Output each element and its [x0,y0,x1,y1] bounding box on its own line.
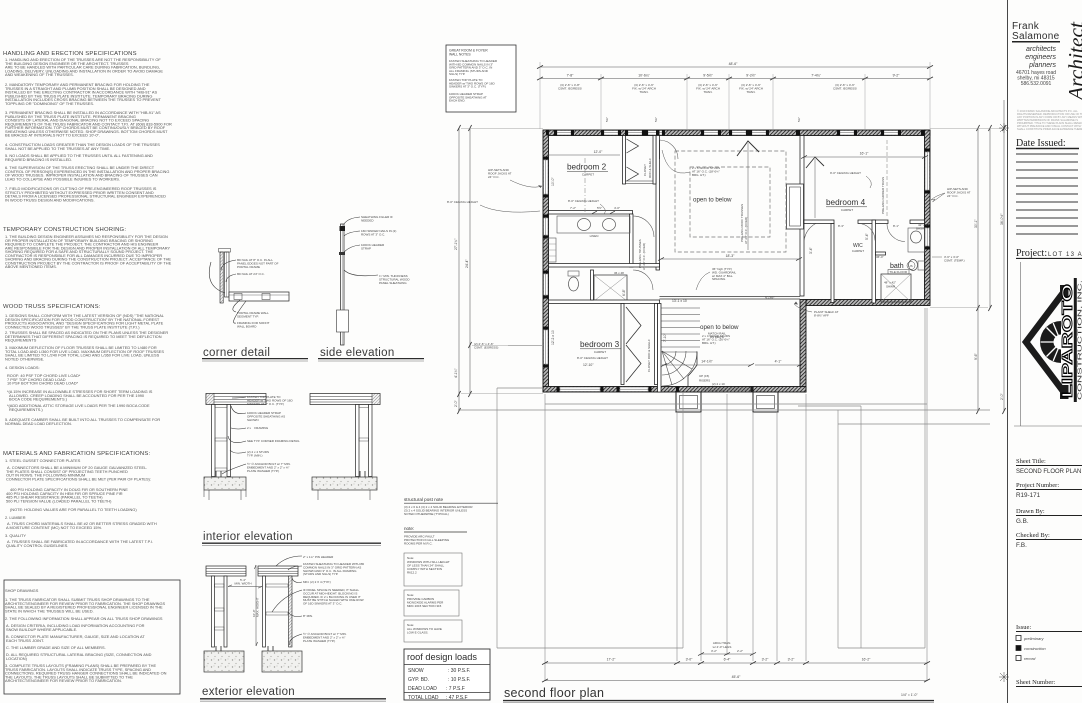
top dim extension lines [540,62,930,129]
svg-text:open to below: open to below [700,324,739,331]
svg-text:2 x FRAMING: 2 x FRAMING [247,426,269,430]
svg-text:: 47 P.S.F: : 47 P.S.F [446,695,468,701]
svg-text:F.B.: F.B. [1016,542,1027,549]
closet wall bed4 vertical [831,224,834,303]
closet bedroom 2 [623,136,626,185]
wall top [546,130,930,136]
svg-text:roof design loads: roof design loads [407,652,477,662]
shower 36x48 [594,275,627,301]
svg-text:Issue:: Issue: [1016,624,1031,631]
svg-text:AT 24" O.C. (OVER): AT 24" O.C. (OVER) [744,217,748,244]
svg-text:preliminary: preliminary [1023,636,1045,641]
windows right wall [925,152,929,246]
foyer arrow [737,141,759,156]
note box 2 [404,590,459,616]
svg-text:CARPET: CARPET [582,173,594,177]
svg-text:8'-3": 8'-3" [838,224,844,228]
svg-text:: 30 P.S.F.: : 30 P.S.F. [448,668,470,674]
small jamb dims above wall [605,117,801,122]
16'-1 dim bedroom4 [804,156,925,158]
porch columns at stair bay [676,392,778,412]
bedroom3 closet [621,304,624,385]
checkbox record [1016,656,1021,661]
svg-text:bedroom 2: bedroom 2 [567,163,607,172]
svg-text:CARPET: CARPET [852,249,864,253]
svg-text:¾" MIN. THICKNESSSTRUCTURAL WO: ¾" MIN. THICKNESSSTRUCTURAL WOODPANEL SH… [379,274,410,285]
svg-text:(3) 2'-6" x 4'-6"CSMT. /EGRESS: (3) 2'-6" x 4'-6"CSMT. /EGRESS/ [833,83,857,90]
wall step [800,300,806,393]
svg-text:30'-1": 30'-1" [974,219,978,228]
svg-text:2'-2": 2'-2" [737,649,743,653]
side elevation drawing [318,215,424,361]
svg-text:10'-0": 10'-0" [551,177,555,186]
registration mark top [999,123,1009,133]
bath tub/shower [881,274,911,302]
svg-text:2" x 1¾" PIN HEADER: 2" x 1¾" PIN HEADER [303,555,334,559]
svg-text:12'-10": 12'-10" [583,363,594,367]
wall bottom right block [806,300,930,306]
right leader note hip-sets [931,187,971,202]
svg-text:planners: planners [1028,62,1056,69]
interior elevation drawing [202,394,381,546]
svg-text:3'-4": 3'-4" [809,246,813,254]
svg-text:architects: architects [1026,46,1056,53]
vanity bath [557,216,630,233]
svg-text:2. THE FOLLOWING INFORMATION S: 2. THE FOLLOWING INFORMATION SHALL APPEA… [5,616,163,621]
wall bed4 closets top [804,220,834,224]
svg-text:structural post note: structural post note [404,497,444,502]
svg-text:corner detail: corner detail [203,347,270,359]
svg-text:9'-0" CEILING HEIGHT: 9'-0" CEILING HEIGHT [830,171,861,175]
svg-text:5½": 5½" [597,206,602,210]
svg-text:1/4" = 1'-0": 1/4" = 1'-0" [901,693,918,697]
svg-text:AT 24" O.C. (OVER): AT 24" O.C. (OVER) [642,243,646,270]
svg-text:bedroom 4: bedroom 4 [826,198,866,207]
bottom dimension tier 2 overall [542,675,930,682]
svg-text:3. QUALITY: 3. QUALITY [5,533,26,538]
sunburst [1040,321,1061,363]
svg-text:12'-0": 12'-0" [594,150,603,154]
shop drawings box [4,580,180,694]
svg-text:Project Number:: Project Number: [1016,482,1059,489]
sheet title second floor plan [503,686,934,703]
svg-text:7'-8": 7'-8" [567,74,575,78]
bottom dimension tier 1 [542,658,930,665]
svg-text:: 7 P.S.F: : 7 P.S.F [446,686,465,692]
svg-text:400 PSI HOLDING CAPACITY IN D: 400 PSI HOLDING CAPACITY IN DOUG FIR OR … [6,487,128,503]
svg-text:(3) 13 x 10: (3) 13 x 10 [710,389,725,393]
note box 1 [404,553,462,586]
wic right wall [872,220,876,303]
svg-text:1. THE BUILDING DESIGN ENGINEE: 1. THE BUILDING DESIGN ENGINEER ASSUMES … [5,234,172,269]
floor plan exterior walls [543,130,930,412]
svg-text:Sheet Number:: Sheet Number: [1016,679,1055,686]
svg-text:Project:: Project: [1016,248,1047,259]
svg-text:US: US [909,264,913,268]
guardrail open to below [660,296,801,298]
svg-text:13'-1 x 10: 13'-1 x 10 [672,299,687,303]
svg-text:G.B.: G.B. [1016,518,1029,525]
bath wc circle [909,260,918,271]
corner detail drawing [202,249,308,362]
windows left wall [544,160,548,364]
svg-text:16'-1": 16'-1" [860,152,869,156]
svg-text:Salamone: Salamone [1012,31,1060,42]
svg-text:MIN. (2) 2 X 4 (TYP.): MIN. (2) 2 X 4 (TYP.) [303,580,331,584]
svg-text:8'-0" CEILING HEIGHT: 8'-0" CEILING HEIGHT [447,200,478,204]
left lower rect [496,388,498,648]
windows top wall [557,131,898,135]
svg-text:3. PERMANENT BRACING SHALL BE: 3. PERMANENT BRACING SHALL BE INSTALLED … [5,110,172,138]
svg-text:LINEN: LINEN [590,234,599,238]
svg-text:TILE FLOOR: TILE FLOOR [890,270,908,274]
right vertical dimension lines [930,100,1006,414]
svg-text:BASIN: BASIN [916,227,925,231]
top dimension tier 1 overall 48'-6" [537,62,933,69]
svg-text:36 x 48: 36 x 48 [614,271,624,275]
door bedroom 4 [804,221,826,243]
svg-text:36'-0½": 36'-0½" [1000,213,1004,225]
window spec labels under top dims [558,83,857,94]
misc small dims [661,258,799,260]
svg-text:WALL NOTES: WALL NOTES [449,53,471,57]
roof chevron [1026,289,1066,395]
architect name [1012,21,1060,87]
svg-text:4'-1¾": 4'-1¾" [454,368,458,378]
svg-text:MATERIALS AND FABRICATION SPEC: MATERIALS AND FABRICATION SPECIFICATIONS… [3,451,150,457]
svg-text:ROD & SHELF: ROD & SHELF [648,158,652,178]
svg-text:16'-2": 16'-2" [862,658,871,662]
room labels [567,163,915,368]
svg-text:8'-1": 8'-1" [893,224,899,228]
title block border [1007,0,1009,703]
svg-text:CARPET: CARPET [841,208,853,212]
faint first-floor outline below plan [458,308,990,648]
svg-text:8D NAIL AT 24" O.C.: 8D NAIL AT 24" O.C. [237,272,265,276]
svg-text:18'-3": 18'-3" [726,254,735,258]
svg-text:R19-171: R19-171 [1016,492,1041,499]
svg-text:3'-2": 3'-2" [711,649,717,653]
registration mark bottom [999,672,1009,682]
svg-text:12'-2 x 10: 12'-2 x 10 [551,330,555,345]
great room & foyer wall notes box [446,45,516,112]
liparoto construction logo [1014,262,1082,426]
4'-1 dim [755,364,800,366]
plant shelf niche [787,184,804,229]
left vertical dimension lines [454,125,543,414]
wall bedroom4 / great room [800,136,804,297]
window jamb marks top wall [546,130,925,136]
svg-text:7'-4¾": 7'-4¾" [811,74,821,78]
svg-text:5¼": 5¼" [797,117,801,122]
svg-text:SEE TYP. CORNER FRAMING DETAIL: SEE TYP. CORNER FRAMING DETAIL [247,439,300,443]
svg-text:17'-2": 17'-2" [607,658,616,662]
plant shelf note [794,302,839,318]
svg-text:9'-6": 9'-6" [974,352,978,360]
note box 3 [404,620,462,642]
svg-text:9'-5½": 9'-5½" [703,74,713,78]
checkbox construction (checked) [1016,646,1021,651]
svg-text:: 10 P.S.F.: : 10 P.S.F. [448,677,470,683]
svg-text:3'-2": 3'-2" [788,658,796,662]
in-plan notes and small dims [547,140,930,393]
wc toilet [568,271,579,276]
door bedroom 2 [660,140,679,159]
roof design loads table [404,649,490,701]
stair treads [661,308,700,347]
left leader note hip-sets [488,168,542,188]
svg-text:27'-1¾": 27'-1¾" [454,238,458,250]
svg-text:SECOND FLOOR PLAN: SECOND FLOOR PLAN [1016,469,1081,475]
svg-text:(3) 2'-6" x 4'-8"CSMT. /EGRESS: (3) 2'-6" x 4'-8"CSMT. /EGRESS/ [558,83,582,90]
svg-text:9'-2": 9'-2" [893,74,901,78]
svg-text:9'-2½": 9'-2½" [746,74,756,78]
structural post note [404,497,498,642]
svg-text:48'-6": 48'-6" [729,62,738,66]
wall left [543,130,549,392]
svg-text:LIPAROTO: LIPAROTO [1060,284,1076,398]
checkbox preliminary [1016,636,1021,641]
svg-text:WOOD TRUSS SPECIFICATIONS:: WOOD TRUSS SPECIFICATIONS: [3,304,101,310]
svg-text:SHOP DRAWINGS: SHOP DRAWINGS [5,588,39,593]
hall dim 14'-1 [664,364,751,366]
exterior elevation drawing [200,555,386,701]
svg-text:PRE-ENG GIRDER TRUSS: PRE-ENG GIRDER TRUSS [881,177,885,214]
height dim [255,565,257,646]
svg-text:TEMPORARY CONSTRUCTION SHORING: TEMPORARY CONSTRUCTION SHORING: [3,227,126,233]
svg-text:DEAD LOAD: DEAD LOAD [408,686,437,692]
svg-text:3'-2": 3'-2" [762,658,770,662]
svg-text:586.532.0091: 586.532.0091 [1021,81,1052,87]
stair winders [661,351,697,386]
svg-text:1. STEEL GUSSET CONNECTOR PLAT: 1. STEEL GUSSET CONNECTOR PLATES [5,458,81,463]
width dim 5'-4" min [228,586,262,588]
bedroom4 arrow [806,157,824,168]
svg-text:45'-6": 45'-6" [732,675,741,679]
svg-text:GYP. BD.: GYP. BD. [408,677,429,683]
right window note [932,255,965,263]
svg-text:CLOSET: CLOSET [643,164,647,176]
svg-text:36'-4": 36'-4" [876,255,884,259]
svg-text:Checked By:: Checked By: [1016,532,1050,539]
svg-text:SHWR: SHWR [886,285,896,289]
svg-text:SNOW: SNOW [408,668,424,674]
svg-text:TOTAL LOAD: TOTAL LOAD [408,695,439,701]
svg-text:6'-8": 6'-8" [622,288,626,296]
svg-text:Date Issued:: Date Issued: [1016,138,1066,149]
svg-text:side elevation: side elevation [320,347,395,359]
svg-text:4'-1": 4'-1" [775,360,783,364]
svg-text:second floor plan: second floor plan [504,686,604,700]
wall bedroom2 / great room [656,136,660,271]
bay window lines between columns [701,388,753,392]
chimney blocks [1060,385,1069,399]
bath vanity [908,228,925,252]
svg-text:bath: bath [890,263,904,270]
svg-text:bedroom 3: bedroom 3 [580,340,620,349]
svg-text:10'-6¼": 10'-6¼" [638,74,650,78]
svg-text:4. DESIGN LOADS:: 4. DESIGN LOADS: [5,365,40,370]
date lines [1016,154,1078,234]
left leader 8'-0" ceiling height [447,200,540,212]
arch tran note [698,641,756,656]
interior partitions [547,136,925,393]
windows bottom wall [560,387,648,391]
svg-text:6'-4": 6'-4" [724,658,732,662]
bedroom3 top wall [549,300,660,304]
svg-text:engineers: engineers [1025,54,1056,61]
svg-text:24'-4": 24'-4" [465,259,469,268]
svg-text:(NOTE: HOLDING VALUES ARE FO: (NOTE: HOLDING VALUES ARE FOR PARALLEL T… [10,507,137,512]
stair left wall [658,304,662,393]
svg-text:construction: construction [1024,646,1046,651]
top dimension tier 2 segments [537,74,933,81]
wall right [925,130,931,302]
svg-text:LOT 13 A: LOT 13 A [1048,252,1082,258]
svg-text:8" MIN.: 8" MIN. [303,614,313,618]
svg-text:RISERS: RISERS [699,379,710,383]
svg-text:7'-2": 7'-2" [570,206,576,210]
ground bars [1074,278,1077,402]
svg-text:5¼": 5¼" [605,117,609,122]
svg-text:4'-0": 4'-0" [614,206,620,210]
svg-text:exterior elevation: exterior elevation [202,686,295,698]
svg-text:2'-0": 2'-0" [1000,392,1004,400]
svg-text:interior elevation: interior elevation [203,531,293,543]
svg-text:CLOSET ROD & SHELF: CLOSET ROD & SHELF [647,339,651,372]
svg-text:2'-0": 2'-0" [454,399,458,407]
svg-text:UP (15): UP (15) [699,374,709,378]
svg-text:(2) 2 x 10: (2) 2 x 10 [712,382,725,386]
svg-text:Drawn By:: Drawn By: [1016,508,1045,515]
svg-text:CARPET: CARPET [594,350,606,354]
svg-text:5¼": 5¼" [654,117,658,122]
wic door arc [858,224,875,241]
svg-text:CONSTRUCTION, INC.: CONSTRUCTION, INC. [1078,280,1082,400]
svg-text:14'-1½": 14'-1½" [701,360,713,364]
right lower rect [837,410,839,648]
great room dashed opening [675,151,786,252]
svg-text:record: record [1024,656,1036,661]
svg-text:C. THE LUMBER GRADE AND SIZE O: C. THE LUMBER GRADE AND SIZE OF ALL MEMB… [6,645,106,650]
bath door arc [887,224,905,242]
12'-0" dim bedroom2 [547,154,620,156]
svg-text:2. LUMBER: 2. LUMBER [5,515,26,520]
bath wall bottom [549,264,660,268]
svg-text:8'-0" CEILING HEIGHT: 8'-0" CEILING HEIGHT [568,199,599,203]
svg-text:5'-4": 5'-4" [865,232,869,240]
bath wall right [630,214,634,267]
svg-text:© 2019 FRANK SALAMONE ARCHIT: © 2019 FRANK SALAMONE ARCHITECTS P.C. AL… [1017,109,1082,131]
svg-text:Sheet Title:: Sheet Title: [1016,458,1046,465]
svg-text:8'-0" CEILING HEIGHT: 8'-0" CEILING HEIGHT [577,356,608,360]
left window note [474,342,542,350]
svg-text:3'-0": 3'-0" [686,658,694,662]
wall bottom left [543,387,806,393]
svg-text:note:: note: [404,526,414,531]
svg-text:Architect: Architect [1064,21,1082,102]
svg-text:9'-0½": 9'-0½" [765,296,775,300]
left specifications column [3,51,180,694]
bottom dim extension lines [545,308,927,681]
svg-text:7'-10": 7'-10" [663,333,667,342]
roof edge line [458,409,990,411]
bath wall top [549,211,633,215]
svg-text:open to below: open to below [693,197,732,204]
